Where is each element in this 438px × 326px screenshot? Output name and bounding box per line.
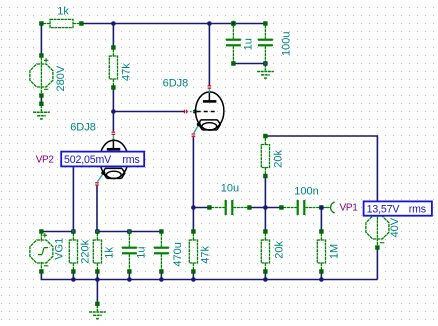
- svg-text:100u: 100u: [280, 32, 292, 56]
- wire from 1k left terminal down to 280V source: [40, 24, 42, 55]
- wire 1M bottom stub: [320, 272, 322, 280]
- upper tube grid pin (teal dashed): [186, 111, 194, 113]
- wire grid node down to lower tube anode: [112, 112, 114, 132]
- wire 20k top to 40V branch: [265, 136, 377, 208]
- svg-text:220k: 220k: [80, 239, 92, 263]
- wire 10u to divider node: [249, 207, 281, 209]
- wire lower 20k bottom stub: [264, 272, 266, 280]
- node caps bottom green cap: [264, 62, 266, 64]
- ground bottom center: [89, 306, 106, 319]
- node gnd rail 1k: [95, 277, 100, 282]
- upper tube anode pin (teal): [208, 88, 210, 93]
- svg-text:13,57V: 13,57V: [367, 204, 401, 216]
- wire 1k bottom stub: [96, 272, 98, 280]
- svg-text:VG1: VG1: [54, 238, 66, 260]
- triode 6DJ8 upper: [196, 92, 224, 130]
- svg-text:100n: 100n: [294, 185, 318, 197]
- terminal 220k bottom: [71, 269, 75, 273]
- terminal 100u lo: [263, 61, 267, 65]
- wire 40V source bottom to ground rail: [376, 248, 378, 280]
- terminal 20k upper top: [263, 134, 267, 138]
- triode 6DJ8 lower: [100, 139, 128, 179]
- capacitor 1u (cathode bypass): [122, 234, 137, 270]
- wire ground stub center: [96, 280, 98, 302]
- svg-text:47k: 47k: [120, 63, 132, 81]
- wire 47k top rail drop: [112, 24, 114, 48]
- node cathode rail 1k: [95, 229, 100, 234]
- terminal 280V minus: [39, 93, 43, 97]
- wire lower tube grid to VG1 node (partly hidden by VP2 box): [73, 160, 95, 232]
- terminal 1k cathode top: [95, 229, 99, 233]
- capacitor 1u (supply bypass): [226, 26, 241, 62]
- svg-text:1k: 1k: [57, 6, 69, 18]
- svg-text:10u: 10u: [221, 183, 239, 195]
- resistor 1k (cathode): [93, 234, 101, 270]
- svg-text:1k: 1k: [104, 247, 116, 259]
- terminal 470u top: [159, 229, 163, 233]
- pin marker cathode lower: [95, 183, 99, 185]
- wire upper tube anode drop from rail: [208, 24, 210, 86]
- lower tube grid pin dot: [97, 158, 101, 162]
- lower tube cathode dot: [101, 171, 105, 175]
- terminal 1u top cap lo: [231, 61, 235, 65]
- node B+ at 1u cap: [231, 21, 235, 25]
- terminal VG1 plus: [39, 229, 43, 233]
- wire lower 47k bottom stub: [192, 272, 194, 280]
- terminal VG1 minus: [39, 269, 43, 273]
- svg-text:6DJ8: 6DJ8: [70, 121, 96, 133]
- wire 1u bottom stub: [128, 272, 130, 280]
- svg-text:40V: 40V: [389, 217, 401, 237]
- terminal 1k left: [39, 21, 43, 25]
- wire 1M top from output node: [320, 208, 322, 232]
- svg-text:20k: 20k: [273, 149, 285, 167]
- node VG1 rail 220k green cap: [72, 230, 75, 233]
- terminal 100n right: [319, 205, 323, 209]
- voltage source 40V: [366, 210, 389, 246]
- pin marker cathode upper: [192, 134, 196, 136]
- terminal 10u right: [247, 205, 251, 209]
- wire top rail B+: [83, 23, 265, 25]
- terminal 280V plus: [39, 53, 43, 57]
- probe VP1 tip: [323, 202, 334, 213]
- terminal 1u top cap hi: [231, 21, 235, 25]
- wire top caps bottom link: [233, 63, 265, 65]
- node caps bottom: [263, 61, 268, 66]
- wire upper tube cathode down to signal node: [192, 137, 194, 208]
- terminal 20k upper bottom: [263, 174, 267, 178]
- terminal 40V minus: [375, 245, 379, 249]
- node gnd rail 470u: [159, 277, 164, 282]
- resistor 220k (grid leak): [69, 234, 77, 270]
- svg-text:6DJ8: 6DJ8: [163, 77, 189, 89]
- node gnd rail 1M: [319, 277, 324, 282]
- terminal 20k lower bottom: [263, 269, 267, 273]
- node cathode rail 1u green cap: [128, 230, 131, 233]
- capacitor 100u (supply bypass): [258, 26, 273, 62]
- resistor 1k (plate feed): [43, 19, 79, 27]
- svg-text:rms: rms: [122, 154, 139, 166]
- terminal squares: [39, 21, 379, 273]
- terminal 1u bypass top: [127, 229, 131, 233]
- svg-text:47k: 47k: [199, 245, 211, 263]
- svg-text:VP1: VP1: [340, 203, 359, 214]
- svg-text:1u: 1u: [242, 38, 254, 50]
- terminal 10u left: [207, 205, 211, 209]
- terminal 47k lower bottom: [191, 269, 195, 273]
- terminal 220k top: [71, 229, 75, 233]
- pin marker grid upper: [185, 110, 187, 114]
- terminal 47k upper top: [111, 45, 115, 49]
- svg-text:1u: 1u: [136, 246, 148, 258]
- wire cathode node rail: [97, 231, 161, 233]
- ground under 280V: [33, 106, 50, 119]
- svg-text:VP2: VP2: [36, 155, 55, 166]
- node divider: [263, 205, 268, 210]
- svg-text:rms: rms: [409, 204, 426, 216]
- wire 280V minus to ground: [40, 96, 42, 104]
- node gnd rail 47k: [191, 277, 196, 282]
- node VG1 rail 220k: [71, 229, 76, 234]
- wire VG1 node rail: [41, 231, 73, 233]
- node gnd rail 20k: [263, 277, 268, 282]
- wire divider node up to 20k: [264, 176, 266, 208]
- svg-text:20k: 20k: [273, 240, 285, 258]
- wire lower tube cathode down: [96, 186, 98, 232]
- node gnd rail 1u: [127, 277, 132, 282]
- svg-text:280V: 280V: [55, 65, 67, 91]
- svg-text:1M: 1M: [329, 244, 341, 259]
- wire ground rail bottom: [41, 272, 377, 280]
- resistor 47k (upper plate load): [109, 50, 117, 86]
- resistor 20k (upper divider): [261, 138, 269, 174]
- signal generator VG1: [30, 233, 53, 269]
- wire divider node down to lower 20k: [264, 208, 266, 232]
- svg-text:502,05mV: 502,05mV: [64, 154, 112, 166]
- svg-text:470u: 470u: [172, 242, 184, 266]
- resistor 47k (follower load): [189, 234, 197, 270]
- node cathode rail 1k green cap: [96, 230, 99, 233]
- resistor 20k (lower divider): [261, 234, 269, 270]
- terminal 470u bottom: [159, 269, 163, 273]
- pin marker anode lower: [112, 132, 116, 134]
- terminal 47k lower top: [191, 229, 195, 233]
- capacitor 470u (cathode bypass): [154, 234, 169, 270]
- terminal 20k lower top: [263, 229, 267, 233]
- meter box VP1: [364, 201, 432, 215]
- terminal 1M top: [319, 229, 323, 233]
- wire 470u bottom stub: [160, 272, 162, 280]
- wire 47k bottom to grid node: [112, 88, 114, 112]
- pin marker anode upper: [208, 86, 212, 88]
- wire 220k bottom stub: [72, 272, 74, 280]
- resistor 1M (probe load): [317, 234, 325, 270]
- terminal 1k right: [79, 21, 83, 25]
- wire signal node to 10u: [193, 207, 209, 209]
- node B+ at anode: [207, 21, 212, 26]
- terminal 100n left: [279, 205, 283, 209]
- wire signal node down to lower 47k: [192, 208, 194, 232]
- node gnd rail 220k: [71, 277, 76, 282]
- terminal 1M bottom: [319, 269, 323, 273]
- capacitor 100n (output coupling 2): [283, 200, 319, 215]
- terminal 1u bypass bottom: [127, 269, 131, 273]
- capacitor 10u (output coupling): [211, 200, 247, 215]
- lower tube cathode pin (teal): [97, 175, 102, 182]
- meter box VP2: [61, 152, 144, 167]
- terminal 1k cathode bottom: [95, 269, 99, 273]
- node output probe: [319, 205, 324, 210]
- node B+ at 47k: [111, 21, 116, 26]
- upper tube cathode pin (teal): [194, 126, 198, 133]
- voltage source 280V: [30, 58, 53, 94]
- terminal 47k upper bottom: [111, 85, 115, 89]
- upper tube cathode dot: [197, 122, 201, 126]
- node signal at cathode: [191, 205, 196, 210]
- ground under 100u: [257, 65, 274, 78]
- lower tube anode pin (teal): [112, 134, 114, 139]
- node cathode rail 1u: [127, 229, 132, 234]
- terminal 100u hi: [263, 21, 267, 25]
- wire grid row to upper tube grid pin: [113, 111, 185, 113]
- node grid row: [111, 109, 116, 114]
- upper tube grid pin dot: [193, 110, 197, 114]
